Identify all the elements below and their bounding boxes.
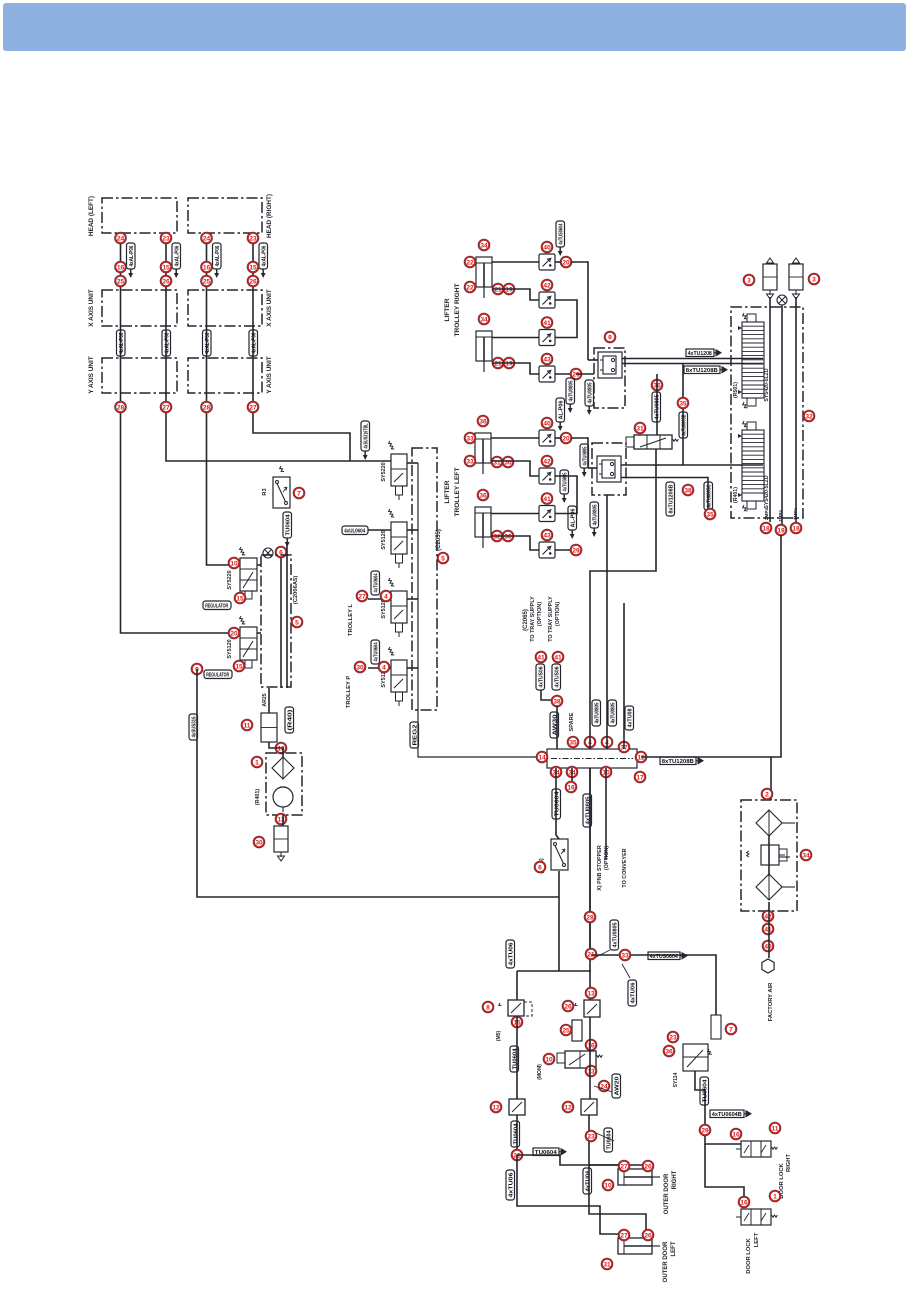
- enclosure C2006A5: [261, 555, 291, 687]
- svg-text:4xTU08: 4xTU08: [628, 709, 634, 728]
- svg-text:TU0604: TU0604: [286, 514, 292, 536]
- flow label 4xTU1208: [686, 349, 721, 357]
- cylinder lifter trolley left A: [475, 433, 491, 474]
- enclosure pump unit frame: [266, 753, 302, 815]
- enclosure X AXIS UNIT right: [188, 290, 262, 326]
- silencer pump silencer: [274, 826, 288, 861]
- lock valve door lock right: [736, 1141, 778, 1157]
- wire tray down: [556, 706, 558, 749]
- svg-text:4xTU0805: 4xTU0805: [593, 505, 599, 526]
- wire cylLB rod: [491, 536, 539, 550]
- svg-text:SY5420-5LZD: SY5420-5LZD: [764, 475, 770, 508]
- svg-text:TU0604: TU0604: [607, 1130, 613, 1150]
- svg-text:31: 31: [603, 1261, 611, 1268]
- svg-text:RIGHT: RIGHT: [672, 1170, 678, 1189]
- pressure switch R3 switch: [273, 477, 290, 508]
- svg-text:35: 35: [679, 400, 687, 407]
- node ref 5: [291, 616, 303, 628]
- wire to valve B1: [656, 374, 658, 435]
- svg-text:26: 26: [564, 1003, 572, 1010]
- svg-text:42: 42: [543, 282, 551, 289]
- svg-text:15: 15: [236, 595, 244, 602]
- value label 4xAL-P08: [249, 330, 258, 356]
- svg-text:27: 27: [249, 404, 257, 411]
- text R3: [262, 488, 268, 495]
- solenoid valve SY5120 P2: [239, 616, 257, 668]
- node ref 33: [619, 949, 631, 961]
- wire bottom bus right: [591, 955, 716, 1015]
- node ref 24: [201, 232, 213, 244]
- node ref 27: [160, 401, 172, 413]
- node ref 13: [585, 1065, 597, 1077]
- svg-text:41: 41: [554, 654, 562, 661]
- text SY5420-5LZD: [764, 475, 770, 508]
- svg-text:(R401): (R401): [733, 487, 739, 503]
- value label 4xSUS316TBL: [361, 421, 370, 460]
- flow label 4xTUS0604: [648, 952, 687, 960]
- solenoid valve SY5220 P1: [239, 547, 257, 599]
- svg-text:41: 41: [543, 320, 551, 327]
- wire main down: [589, 768, 591, 955]
- wire coupler L out1: [621, 464, 763, 466]
- svg-text:24: 24: [117, 235, 125, 242]
- svg-text:TO CONVEYER: TO CONVEYER: [622, 848, 628, 887]
- svg-text:11: 11: [772, 1125, 779, 1132]
- value label 4xTUS06: [536, 664, 545, 690]
- svg-text:5: 5: [295, 619, 299, 626]
- node ref 43: [541, 529, 553, 541]
- wire cylLB cap: [491, 513, 539, 515]
- node ref 13: [275, 813, 287, 825]
- svg-text:4: 4: [384, 593, 388, 600]
- wire left loop: [197, 669, 559, 897]
- valve sq C: [581, 1099, 597, 1115]
- value label 4xTU0604: [371, 571, 380, 595]
- svg-text:30: 30: [356, 664, 364, 671]
- value label 4xTU0805B: [679, 412, 688, 438]
- node ref 9: [604, 331, 616, 343]
- svg-text:16: 16: [732, 1131, 740, 1138]
- node ref 36: [651, 379, 663, 391]
- svg-text:8: 8: [486, 1004, 490, 1011]
- manifold bar: [547, 749, 637, 768]
- svg-text:27: 27: [620, 1163, 628, 1170]
- svg-text:TU0604: TU0604: [513, 1048, 519, 1070]
- node ref 36: [477, 489, 489, 501]
- svg-text:SY5220: SY5220: [227, 570, 233, 589]
- svg-text:4xAL-P08: 4xAL-P08: [119, 333, 125, 354]
- speed controller SC L4: [539, 542, 555, 558]
- valve B1: [626, 435, 679, 449]
- speed controller SC R2: [539, 292, 555, 308]
- value label 4xTU0805: [585, 380, 594, 415]
- node ref 34: [566, 766, 578, 778]
- flow label 8xTU1208B: [660, 757, 703, 765]
- text DOOR LOCK: [779, 1162, 785, 1198]
- valve sol C top: [574, 1000, 600, 1017]
- svg-text:40: 40: [543, 244, 551, 251]
- text (R501): [733, 382, 739, 398]
- svg-text:42: 42: [543, 458, 551, 465]
- regulator AR25: [261, 713, 277, 748]
- svg-text:7: 7: [297, 490, 301, 497]
- text (C2065): [523, 609, 529, 631]
- node ref 18: [790, 522, 802, 534]
- svg-text:LEFT: LEFT: [754, 1232, 760, 1247]
- svg-text:RIGHT: RIGHT: [786, 1154, 792, 1172]
- svg-text:4xTUS0604: 4xTUS0604: [650, 954, 679, 960]
- wire v4 port: [407, 667, 418, 669]
- node ref 22: [464, 281, 476, 293]
- value label 4xAL-P06: [213, 243, 222, 278]
- svg-text:23: 23: [587, 1133, 595, 1140]
- svg-text:30: 30: [255, 839, 263, 846]
- svg-text:4xSUS316TBL: 4xSUS316TBL: [364, 423, 370, 448]
- node ref 30: [354, 661, 366, 673]
- value label AW20: [612, 1074, 621, 1098]
- wire head-left line B: [166, 233, 391, 461]
- text SY5420-5LZD: [764, 368, 770, 401]
- wire coupler L out2: [621, 478, 708, 518]
- node ref 31: [634, 422, 646, 434]
- svg-text:4xAL-P06: 4xAL-P06: [262, 246, 268, 267]
- wire lockL feed: [705, 1144, 744, 1204]
- value label 4xTU0805: [566, 378, 575, 413]
- svg-text:29: 29: [572, 547, 580, 554]
- value label 4xTU0805: [560, 470, 569, 503]
- node ref 42: [541, 279, 553, 291]
- wire sw down: [286, 544, 288, 553]
- text LEFT: [754, 1232, 760, 1247]
- svg-text:28: 28: [117, 404, 125, 411]
- node ref 41: [541, 317, 553, 329]
- wire cylLA cap: [491, 437, 539, 439]
- svg-text:SY5120: SY5120: [381, 530, 387, 549]
- svg-text:10: 10: [230, 560, 238, 567]
- wire box to filters: [770, 757, 772, 800]
- svg-text:TROLLEY LEFT: TROLLEY LEFT: [454, 468, 461, 517]
- svg-text:20: 20: [562, 259, 570, 266]
- value label TU0604: [510, 1046, 519, 1072]
- svg-text:1: 1: [255, 759, 259, 766]
- cylinder lifter trolley right A: [476, 257, 492, 298]
- svg-text:8xTU1208B: 8xTU1208B: [669, 484, 675, 513]
- text SY5120: [381, 668, 387, 687]
- wire to ODR: [517, 1155, 625, 1169]
- svg-text:41: 41: [543, 496, 551, 503]
- svg-text:26: 26: [162, 278, 170, 285]
- text TROLLEY L: [348, 603, 354, 636]
- text DOOR LOCK: [746, 1237, 752, 1273]
- svg-text:25: 25: [562, 1027, 570, 1034]
- value label TU0604: [700, 1077, 709, 1105]
- svg-text:4xTU0604: 4xTU0604: [374, 642, 380, 662]
- filter prep filter 2: [756, 874, 782, 900]
- speed controller SC R1: [539, 254, 555, 270]
- muffler B arrow: [793, 258, 800, 263]
- svg-text:36: 36: [665, 1048, 673, 1055]
- enclosure HEAD (RIGHT): [188, 198, 262, 233]
- svg-text:(M5): (M5): [496, 1031, 502, 1042]
- node ref 22: [511, 1149, 523, 1161]
- tag arrow: [594, 950, 610, 958]
- value label 4xTUS06: [552, 664, 561, 690]
- value label 4xTU0805: [583, 794, 592, 827]
- svg-text:AL-P06: AL-P06: [571, 509, 577, 528]
- svg-text:19: 19: [777, 527, 785, 534]
- node ref 3: [808, 273, 820, 285]
- svg-text:4xTUS06: 4xTUS06: [555, 667, 561, 688]
- node ref 26: [247, 275, 259, 287]
- node ref 16: [201, 261, 213, 273]
- wire pump out: [282, 815, 284, 826]
- value label 4xTU06: [506, 940, 515, 968]
- svg-text:(C2065): (C2065): [523, 609, 529, 631]
- svg-text:35: 35: [706, 511, 714, 518]
- svg-text:LIFTER: LIFTER: [444, 480, 451, 503]
- wire bus right: [571, 262, 588, 360]
- manifold valve SY5420 lower: [738, 421, 764, 512]
- svg-text:10: 10: [545, 1056, 553, 1063]
- svg-text:18: 18: [792, 525, 800, 532]
- text 1MPa: [778, 510, 783, 522]
- regulator R2: [747, 845, 787, 865]
- speed controller SC R3: [539, 330, 555, 346]
- enclosure coupler frame R: [594, 348, 625, 408]
- enclosure HEAD (LEFT): [102, 198, 177, 233]
- node ref 11: [241, 719, 253, 731]
- svg-text:(R401): (R401): [255, 789, 261, 806]
- node ref 6: [275, 546, 287, 558]
- node ref 4: [380, 590, 392, 602]
- node ref 14: [536, 751, 548, 763]
- text RIGHT: [672, 1170, 678, 1189]
- svg-text:4xTU0805C: 4xTU0805C: [707, 484, 713, 507]
- svg-text:4xTU0805: 4xTU0805: [569, 381, 575, 402]
- node ref 25: [201, 275, 213, 287]
- svg-text:31: 31: [636, 425, 644, 432]
- svg-text:16: 16: [203, 264, 211, 271]
- junction supply tee: [263, 548, 273, 558]
- svg-text:9: 9: [608, 334, 612, 341]
- text SY114: [673, 1072, 679, 1087]
- node ref 13: [585, 987, 597, 999]
- text OUTER DOOR: [663, 1241, 669, 1282]
- value label 4xTU0805: [610, 920, 619, 950]
- node ref 15: [234, 592, 246, 604]
- text SY5120: [227, 639, 233, 658]
- svg-text:5: 5: [441, 555, 445, 562]
- node ref 34: [800, 849, 812, 861]
- value label 4xAL-P08: [162, 330, 171, 356]
- value label (R40): [285, 707, 294, 733]
- enclosure coupler frame L: [592, 443, 626, 495]
- node ref 15: [160, 261, 172, 273]
- node ref 29: [699, 1124, 711, 1136]
- wire cross link: [517, 970, 591, 972]
- svg-text:SY5220: SY5220: [381, 462, 387, 481]
- svg-text:LEFT: LEFT: [671, 1241, 677, 1256]
- node ref 34: [478, 239, 490, 251]
- value label 8xTU1208B: [666, 482, 675, 516]
- wire scR1 to bus: [555, 261, 561, 263]
- svg-text:(R501): (R501): [733, 382, 739, 398]
- svg-text:15: 15: [235, 663, 243, 670]
- svg-text:4xTU0805: 4xTU0805: [563, 473, 569, 492]
- svg-text:4xTU0805: 4xTU0805: [613, 923, 619, 948]
- svg-text:43: 43: [543, 532, 551, 539]
- node ref 19: [775, 524, 787, 536]
- text LIFTER: [444, 480, 451, 503]
- value label TU0604: [552, 789, 561, 819]
- text X AXIS UNIT: [266, 289, 273, 326]
- node ref 23: [667, 1031, 679, 1043]
- node ref 3: [743, 274, 755, 286]
- svg-text:27: 27: [162, 404, 170, 411]
- node ref 40: [762, 940, 774, 952]
- svg-text:33: 33: [466, 435, 474, 442]
- wire main down2: [589, 768, 591, 1000]
- node ref 1: [769, 1190, 781, 1202]
- text (OPTION): [604, 846, 610, 870]
- speed controller SC L2: [539, 468, 555, 484]
- node ref 6: [534, 861, 546, 873]
- svg-text:3: 3: [747, 277, 751, 284]
- value label AL-P06: [568, 506, 577, 539]
- svg-text:13: 13: [277, 816, 285, 823]
- text (OPTION): [555, 602, 561, 626]
- wire cylRA rod: [492, 289, 539, 300]
- svg-text:4: 4: [382, 664, 386, 671]
- node ref 32: [491, 530, 503, 542]
- wire third port: [623, 603, 625, 749]
- node ref 5: [437, 552, 449, 564]
- node ref 16: [565, 781, 577, 793]
- wire bus to coupler L: [588, 467, 597, 469]
- node ref 4: [378, 661, 390, 673]
- svg-text:16: 16: [587, 1042, 595, 1049]
- wire stack lines C: [795, 297, 797, 522]
- node ref 35: [677, 397, 689, 409]
- svg-text:7: 7: [729, 1026, 733, 1033]
- svg-text:13: 13: [587, 990, 595, 997]
- value label 4xSUS316: [189, 714, 198, 740]
- svg-text:1: 1: [773, 1193, 777, 1200]
- enclosure Y AXIS UNIT left: [102, 358, 177, 393]
- svg-text:35: 35: [569, 739, 577, 746]
- cylinder lifter trolley left B: [475, 507, 491, 548]
- node ref 13: [275, 742, 287, 754]
- node ref 17: [634, 771, 646, 783]
- node ref 19: [503, 283, 515, 295]
- node ref 38: [682, 484, 694, 496]
- wire stack lines A: [769, 297, 771, 522]
- node ref 41: [541, 493, 553, 505]
- node ref 26: [642, 1229, 654, 1241]
- regulator C: [557, 1051, 603, 1068]
- svg-text:SPARE: SPARE: [569, 712, 575, 731]
- svg-text:X) PNB STOPPER: X) PNB STOPPER: [597, 845, 603, 891]
- text AR25: [262, 693, 268, 706]
- svg-text:(C2006A5): (C2006A5): [293, 576, 299, 604]
- solenoid valve SY5120 T4: [388, 647, 407, 706]
- svg-text:4xTU0604: 4xTU0604: [374, 573, 380, 593]
- switch spring: [279, 466, 284, 473]
- svg-text:41: 41: [764, 926, 772, 933]
- wire head-left line A: [121, 233, 241, 633]
- svg-text:4xTU06: 4xTU06: [631, 983, 637, 1004]
- node ref 16: [738, 1196, 750, 1208]
- coupler coupler R: [598, 352, 622, 378]
- node ref 37: [618, 741, 630, 753]
- svg-text:SY114: SY114: [673, 1072, 679, 1087]
- value label 4xTU0805: [608, 700, 617, 726]
- node ref 34: [550, 766, 562, 778]
- enclosure X AXIS UNIT left: [102, 290, 177, 326]
- svg-text:HEAD (RIGHT): HEAD (RIGHT): [266, 194, 273, 238]
- svg-text:TU0604: TU0604: [514, 1123, 520, 1145]
- svg-text:12: 12: [564, 1104, 572, 1111]
- svg-text:REGULATOR: REGULATOR: [205, 604, 228, 610]
- text HEAD (RIGHT): [266, 194, 273, 238]
- text Y AXIS UNIT: [266, 356, 273, 393]
- text OUTER DOOR: [664, 1173, 670, 1214]
- text (R401): [255, 789, 261, 806]
- svg-text:AW30: AW30: [553, 715, 559, 736]
- wire sqL down: [516, 1115, 518, 1155]
- node ref 22: [464, 256, 476, 268]
- wire cylLA rod: [491, 461, 539, 476]
- svg-text:1MPa: 1MPa: [778, 510, 783, 522]
- svg-text:FACTORY AIR: FACTORY AIR: [768, 982, 774, 1021]
- text 2MPa: [764, 508, 769, 520]
- svg-text:36: 36: [479, 492, 487, 499]
- svg-text:LIFTER: LIFTER: [444, 298, 451, 321]
- wire prep inlet: [768, 902, 770, 958]
- svg-text:4xUL0604: 4xUL0604: [344, 529, 366, 535]
- svg-text:26: 26: [644, 1163, 652, 1170]
- svg-text:3MPa: 3MPa: [793, 508, 798, 520]
- header banner: [3, 3, 906, 51]
- svg-text:(R40): (R40): [288, 709, 294, 730]
- node ref 21: [585, 948, 597, 960]
- enclosure manifold C2055: [412, 448, 437, 710]
- svg-text:29: 29: [701, 1127, 709, 1134]
- node ref 27: [356, 590, 368, 602]
- node ref 35: [567, 736, 579, 748]
- node ref 25: [560, 1024, 572, 1036]
- wire odl feed: [517, 1155, 625, 1238]
- svg-text:SY5120: SY5120: [227, 639, 233, 658]
- svg-text:4xTU06: 4xTU06: [509, 1173, 515, 1198]
- svg-text:22: 22: [466, 284, 474, 291]
- wire cylRB cap: [492, 337, 539, 339]
- svg-text:38: 38: [553, 698, 561, 705]
- wire scR2 link: [555, 300, 577, 338]
- svg-text:4xTU1208: 4xTU1208: [688, 351, 712, 357]
- node ref 24: [115, 232, 127, 244]
- enclosure air prep unit: [741, 800, 797, 911]
- speed controller SC L1: [539, 430, 555, 446]
- node ref 16: [730, 1128, 742, 1140]
- svg-text:4xAL-P08: 4xAL-P08: [165, 333, 171, 354]
- svg-text:26: 26: [644, 1232, 652, 1239]
- value label 4xUL0604: [342, 526, 368, 535]
- svg-text:AL-P06: AL-P06: [559, 401, 565, 420]
- svg-text:23: 23: [669, 1034, 677, 1041]
- pump vacuum pump: [273, 787, 293, 812]
- node ref 33: [464, 455, 476, 467]
